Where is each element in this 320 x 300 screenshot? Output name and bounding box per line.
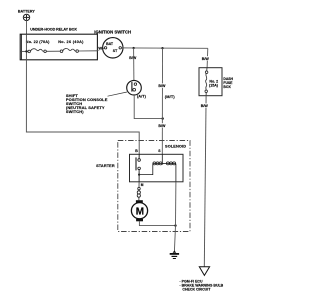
svg-text:STARTER: STARTER [96, 163, 115, 168]
svg-text:M: M [136, 206, 144, 217]
wire label B/W (below fuse box) [201, 103, 209, 108]
svg-text:BAT: BAT [106, 42, 114, 46]
node ground junction [174, 224, 176, 226]
ignition switch [103, 38, 123, 58]
armature coil [137, 190, 140, 200]
svg-text:IGNITION SWITCH: IGNITION SWITCH [94, 29, 131, 34]
destination text [180, 279, 224, 291]
svg-text:SWITCH): SWITCH) [66, 109, 84, 114]
wire junction2 (M/T) down to solenoid S [161, 48, 163, 154]
wire M terminal [138, 182, 140, 188]
svg-text:CHECK CIRCUIT: CHECK CIRCUIT [182, 288, 211, 292]
shift position console switch (A/T) [127, 80, 142, 95]
ground G1 [170, 250, 179, 259]
hollow arrow (to PGM-FI ECU) [199, 267, 209, 276]
dash fuse box label [223, 77, 233, 89]
svg-text:UNDER-HOOD RELAY BOX: UNDER-HOOD RELAY BOX [30, 28, 77, 32]
svg-text:B/W: B/W [202, 57, 210, 61]
solenoid pull-in winding [139, 154, 162, 174]
fuse No.2 [205, 68, 208, 96]
dash fuse box [199, 68, 222, 96]
svg-text:(M/T): (M/T) [165, 94, 176, 99]
wire fuse box down to arrow [204, 96, 206, 267]
svg-text:W: W [98, 47, 102, 51]
solenoid contact (B to M) [136, 154, 140, 182]
under-hood relay box [20, 34, 97, 60]
wire battery to relay box [25, 21, 27, 35]
svg-text:B/W: B/W [158, 84, 166, 88]
wire hold-in to ground [175, 182, 177, 226]
wire label W [98, 46, 102, 51]
svg-text:M: M [141, 183, 144, 187]
svg-text:SOLENOID: SOLENOID [165, 144, 186, 149]
svg-text:B/W: B/W [201, 104, 209, 108]
svg-text:No. 22 (70A): No. 22 (70A) [26, 40, 50, 44]
motor M1 [131, 200, 147, 221]
fuse No.22 [28, 49, 46, 53]
wire label B/W (M/T wire) [158, 83, 166, 88]
wire label B/W (above S terminal) [158, 123, 166, 128]
left battery cable down through box [26, 34, 139, 154]
wire motor to ground junction [139, 221, 175, 225]
svg-text:BOX: BOX [223, 85, 231, 89]
wire label B/W (above fuse box) [202, 56, 210, 61]
battery [23, 14, 29, 20]
solenoid box [130, 154, 184, 182]
svg-text:(A/T): (A/T) [137, 93, 147, 98]
node junction A/T into M/T wire [162, 117, 164, 119]
node S junction [161, 163, 163, 165]
fuse bus wire [20, 50, 97, 53]
svg-text:B/W: B/W [129, 56, 137, 60]
starter dashed box [118, 141, 190, 232]
main wire ignition switch to right corner [121, 47, 207, 49]
fuse No.26 [60, 49, 78, 53]
pointer line text to switch [108, 92, 128, 96]
node junction 2 [161, 47, 163, 49]
shift position console switch text block [66, 93, 108, 114]
svg-text:(15A): (15A) [209, 84, 219, 88]
wire A/T switch down and right [134, 95, 163, 119]
svg-text:BATTERY: BATTERY [18, 9, 35, 13]
wire right corner down to dash fuse box [206, 48, 209, 67]
svg-text:B/W: B/W [158, 124, 166, 128]
wire junction1 down to A/T switch [133, 48, 135, 81]
svg-text:No. 26 (40A): No. 26 (40A) [58, 40, 84, 44]
solenoid hold-in winding [162, 162, 176, 182]
node pull-in to M wire [138, 174, 140, 176]
junction bus/battery [25, 50, 27, 52]
node junction 1 [132, 47, 134, 49]
wire relay box to ignition switch [97, 48, 104, 51]
